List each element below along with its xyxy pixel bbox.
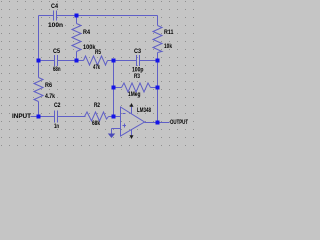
wire input node to C2 — [39, 116, 55, 118]
wire R5 node to C3 — [114, 60, 137, 62]
wire top-left segment to C4 — [39, 15, 54, 17]
svg-text:R5: R5 — [95, 50, 102, 56]
svg-text:LM348: LM348 — [137, 108, 151, 114]
svg-text:68n: 68n — [53, 67, 61, 73]
node at C4-R4 junction — [75, 14, 79, 18]
svg-text:10k: 10k — [164, 44, 173, 50]
resistor R2 — [85, 103, 114, 127]
node at C3-R11 junction — [156, 59, 160, 63]
wire top segment C4 to top-right corner — [57, 15, 158, 17]
wire C3 to right column node — [140, 60, 158, 62]
capacitor C5 — [53, 49, 61, 73]
svg-text:C4: C4 — [51, 4, 59, 10]
node at R3 right — [156, 86, 160, 90]
svg-text:100p: 100p — [132, 68, 144, 74]
node at R5-C3 junction — [112, 59, 116, 63]
capacitor C4 — [48, 4, 63, 29]
wire C5 row left — [39, 60, 55, 62]
power pin V+ — [130, 103, 134, 114]
svg-text:C5: C5 — [53, 49, 61, 55]
ground — [108, 134, 115, 139]
svg-text:1Meg: 1Meg — [128, 92, 141, 98]
wire left column upper (corner to C5 row) — [38, 16, 40, 61]
svg-text:47k: 47k — [93, 65, 100, 71]
svg-text:1n: 1n — [54, 124, 59, 130]
svg-text:INPUT: INPUT — [12, 114, 31, 120]
node at output junction — [156, 121, 160, 125]
capacitor C3 — [132, 49, 144, 74]
wire output lead — [158, 122, 170, 124]
svg-text:C3: C3 — [134, 49, 142, 55]
svg-text:100n: 100n — [48, 23, 63, 29]
wire mid column C3 row to R3 row — [113, 61, 115, 88]
op-amp U1 LM348 — [121, 107, 152, 136]
resistor R4 — [72, 16, 96, 61]
resistor R5 — [77, 50, 114, 71]
node at R4 bottom — [75, 59, 79, 63]
svg-text:68k: 68k — [92, 121, 101, 127]
svg-text:R11: R11 — [164, 30, 174, 36]
wire inverting input — [114, 116, 121, 118]
svg-text:R6: R6 — [45, 83, 53, 89]
wire op-amp output to node — [145, 122, 158, 124]
svg-text:R4: R4 — [83, 30, 91, 36]
svg-text:C2: C2 — [54, 103, 61, 109]
wire mid column R3 row to input row — [113, 88, 115, 117]
svg-text:4.7k: 4.7k — [45, 94, 56, 100]
svg-text:R2: R2 — [94, 103, 101, 109]
svg-text:R3: R3 — [134, 74, 141, 80]
resistor R6 — [34, 61, 56, 117]
wire right column C3 row to R3 row — [157, 61, 159, 88]
capacitor C2 — [54, 103, 61, 130]
node at R3 left — [112, 86, 116, 90]
node at inverting input junction — [112, 115, 116, 119]
resistor R11 — [153, 16, 174, 61]
wire non-inverting input to ground — [112, 129, 121, 134]
svg-text:OUTPUT: OUTPUT — [170, 120, 188, 126]
node at left column C5 row — [37, 59, 41, 63]
wire C5 to R4 bottom node — [58, 60, 77, 62]
resistor R3 — [114, 74, 158, 98]
wire input lead — [31, 116, 39, 118]
wire C2 to R2 — [58, 116, 86, 118]
power pin V- — [130, 129, 134, 139]
node at input junction — [37, 115, 41, 119]
wire right column R3 row to output row — [157, 88, 159, 123]
